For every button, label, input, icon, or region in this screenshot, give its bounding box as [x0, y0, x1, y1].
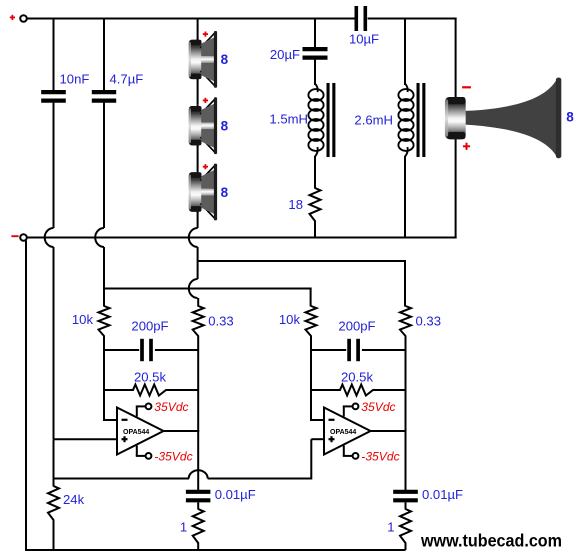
svg-text:1.5mH: 1.5mH	[269, 112, 308, 127]
resistor 18 ohm R1	[310, 188, 321, 221]
wire + input (stage 1)	[54, 438, 118, 440]
wire output node down to 0.01uF (stage 1)	[197, 430, 199, 490]
wire stage1 10k branch drop	[103, 288, 105, 307]
svg-text:200pF: 200pF	[131, 319, 168, 334]
wire + feed rise to stage2 + input	[310, 439, 312, 479]
wire 200pF row (stage 2)	[311, 349, 406, 351]
svg-text:0.01µF: 0.01µF	[422, 487, 463, 502]
svg-text:0.33: 0.33	[208, 314, 233, 329]
wire stage2 10k branch drop	[310, 288, 312, 307]
inductor 1.5mH L1	[315, 84, 318, 93]
capacitor 20uF C3	[303, 47, 328, 51]
inductor 2.6mH L2	[405, 84, 408, 93]
svg-text:10nF: 10nF	[60, 72, 90, 87]
wire tweeter driver to minus rail	[455, 138, 457, 239]
loudspeaker woofer SP3 (8 ohm)	[197, 171, 199, 213]
wire - input (stage 1)	[103, 419, 117, 421]
wire speaker branch from top rail	[197, 18, 199, 43]
wire 2.6mH branch from top rail	[404, 18, 406, 86]
svg-text:10µF: 10µF	[349, 32, 379, 47]
svg-text:8: 8	[221, 185, 229, 200]
wire 10k bottom to - input (stage 1)	[103, 336, 105, 421]
op-amp U1 OPA544	[117, 408, 164, 455]
wire between speakers	[197, 79, 199, 104]
svg-text:8: 8	[221, 119, 229, 134]
resistor 20.5k R1c	[104, 385, 198, 396]
wire 4.7uF branch below minus rail	[103, 247, 105, 289]
svg-text:www.tubecad.com: www.tubecad.com	[420, 531, 562, 551]
loudspeaker woofer SP1 (8 ohm)	[197, 38, 199, 80]
wire 0.33 bottom to output node (stage 1)	[197, 336, 199, 432]
input - terminal	[20, 234, 27, 241]
svg-text:20µF: 20µF	[270, 47, 300, 62]
wire minus rail	[27, 237, 457, 239]
-35Vdc supply pin (stage 2)	[343, 446, 345, 456]
wire tweeter branch down from top rail	[455, 18, 457, 99]
red - polarity mark tweeter	[462, 86, 471, 88]
svg-text:200pF: 200pF	[338, 319, 375, 334]
svg-text:0.01µF: 0.01µF	[215, 487, 256, 502]
wire 10k bottom to - input (stage 2)	[310, 336, 312, 421]
svg-text:OPA544: OPA544	[123, 429, 149, 436]
wire 0.33 bottom to output node (stage 2)	[405, 336, 407, 432]
svg-text:10k: 10k	[72, 312, 94, 327]
svg-text:1: 1	[180, 520, 187, 535]
wire 10nF node down to 24k	[53, 439, 55, 486]
wire 1 ohm to bottom rail (stage 1)	[197, 543, 199, 551]
capacitor 200pF C1f	[139, 339, 155, 362]
svg-text:8: 8	[221, 52, 229, 67]
wire 4.7uF branch from top rail	[103, 18, 105, 91]
red + polarity mark speaker SP3	[203, 166, 208, 168]
resistor 20.5k R2c	[311, 385, 406, 396]
op-amp U2 OPA544	[324, 408, 371, 455]
svg-text:8: 8	[566, 110, 574, 125]
svg-text:-35Vdc: -35Vdc	[154, 449, 192, 463]
wire + feed line continued	[208, 478, 312, 480]
resistor 1 ohm R1z	[193, 509, 204, 543]
wire output (stage 1)	[162, 430, 199, 432]
wire + input (stage 2)	[311, 438, 324, 440]
wire speaker chain into stage1 0.33	[197, 298, 199, 307]
wire hop of 10nF branch over minus rail	[45, 228, 54, 247]
wire stage2 0.33 branch drop	[404, 260, 406, 307]
wire hop of speaker chain over minus rail	[189, 228, 198, 247]
capacitor 0.01uF C2z	[393, 490, 418, 494]
wire 20uF branch from top rail	[314, 18, 316, 48]
wire node line from speaker chain to stage2 0.33 branch	[198, 260, 406, 262]
svg-text:0.33: 0.33	[416, 314, 441, 329]
capacitor 10nF C1	[41, 90, 66, 94]
loudspeaker woofer SP2 (8 ohm)	[197, 105, 199, 147]
input + terminal	[20, 15, 27, 22]
+35Vdc supply pin (stage 2)	[343, 406, 345, 416]
wire output (stage 2)	[369, 430, 407, 432]
wire 20uF to 1.5mH coil	[314, 60, 316, 85]
wire 24k to bottom rail	[53, 520, 55, 551]
wire input rail from 4.7uF branch to stage2 10k	[104, 288, 312, 290]
horn tweeter driver (8 ohm)	[466, 79, 557, 157]
capacitor 200pF C2f	[346, 339, 362, 362]
wire hop of + feed line over stage1 output	[189, 470, 208, 478]
wire 0.01uF to 1 ohm (stage 1)	[197, 502, 199, 509]
wire 200pF row (stage 1)	[104, 349, 198, 351]
resistor 0.33 R2b	[400, 306, 411, 336]
svg-text:18: 18	[288, 197, 303, 212]
-35Vdc supply pin (stage 1)	[136, 446, 138, 456]
red - polarity mark at input	[11, 235, 18, 237]
wire from - terminal down left side	[25, 241, 27, 552]
red + polarity mark speaker SP1	[203, 33, 208, 35]
wire 2.6mH to minus rail	[404, 156, 406, 238]
wire top rail right of 10uF	[368, 18, 457, 20]
wire 1.5mH to 18 ohm resistor	[314, 156, 316, 189]
resistor 24k R5	[48, 486, 59, 520]
resistor 10k R1a	[99, 306, 110, 336]
red + polarity mark at input	[10, 16, 15, 18]
capacitor 10uF (series, top rail)	[354, 6, 358, 31]
wire 18 ohm to minus rail	[314, 221, 316, 238]
svg-text:10k: 10k	[279, 312, 301, 327]
wire 10nF branch below minus rail	[53, 247, 55, 439]
wire + input feed from 10nF node	[54, 478, 190, 480]
wire between speakers	[197, 146, 199, 171]
svg-text:20.5k: 20.5k	[134, 370, 166, 385]
svg-text:24k: 24k	[63, 492, 85, 507]
svg-text:4.7µF: 4.7µF	[110, 72, 144, 87]
red + polarity mark speaker SP2	[203, 99, 208, 101]
wire 0.01uF to 1 ohm (stage 2)	[405, 502, 407, 509]
svg-text:1: 1	[387, 520, 394, 535]
capacitor 0.01uF C1z	[186, 490, 211, 494]
+35Vdc supply pin (stage 1)	[136, 406, 138, 416]
svg-text:2.6mH: 2.6mH	[354, 113, 393, 128]
wire 10nF branch from top rail	[53, 18, 55, 91]
wire 4.7uF bottom to minus-rail hop	[103, 103, 105, 228]
capacitor 4.7uF C2	[92, 90, 116, 94]
wire 10nF bottom to minus-rail hop	[53, 103, 55, 228]
wire top rail left of 10uF	[27, 18, 355, 20]
wire output node down to 0.01uF (stage 2)	[405, 430, 407, 490]
wire 1 ohm to bottom rail (stage 2)	[405, 543, 407, 551]
wire hop of 4.7uF branch over minus rail	[95, 228, 104, 247]
svg-text:-35Vdc: -35Vdc	[361, 449, 399, 463]
red + polarity mark tweeter	[463, 145, 470, 147]
wire speaker chain between hops	[197, 247, 199, 279]
svg-text:35Vdc: 35Vdc	[154, 400, 188, 414]
wire speaker chain to minus-rail hop	[197, 212, 199, 228]
wire bottom rail	[25, 549, 406, 551]
wire hop of speaker chain over input rail	[189, 279, 198, 298]
wire - input (stage 2)	[310, 419, 324, 421]
resistor 1 ohm R2z	[400, 509, 411, 543]
svg-text:35Vdc: 35Vdc	[361, 400, 395, 414]
svg-text:OPA544: OPA544	[330, 429, 356, 436]
resistor 0.33 R1b	[193, 306, 204, 336]
resistor 10k R2a	[306, 306, 317, 336]
svg-text:20.5k: 20.5k	[341, 370, 373, 385]
